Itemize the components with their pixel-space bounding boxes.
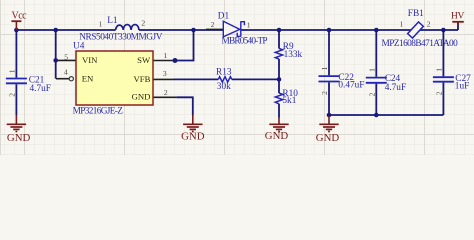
- svg-text:1: 1: [99, 19, 103, 28]
- svg-text:EN: EN: [82, 74, 94, 84]
- svg-text:1: 1: [247, 20, 251, 29]
- svg-text:1uF: 1uF: [455, 82, 469, 92]
- svg-text:1: 1: [434, 68, 443, 72]
- svg-text:1: 1: [320, 66, 329, 70]
- svg-text:2: 2: [320, 91, 329, 95]
- svg-text:GND: GND: [181, 131, 205, 143]
- svg-text:HV: HV: [451, 11, 464, 21]
- svg-text:D1: D1: [218, 11, 230, 21]
- svg-text:1: 1: [164, 51, 168, 60]
- svg-text:FB1: FB1: [408, 9, 424, 19]
- svg-text:U4: U4: [73, 41, 85, 51]
- svg-text:VFB: VFB: [133, 74, 150, 84]
- svg-text:GND: GND: [7, 132, 31, 144]
- svg-text:MPZ1608B471ATA00: MPZ1608B471ATA00: [382, 39, 459, 49]
- svg-text:2: 2: [427, 19, 431, 28]
- svg-text:2: 2: [367, 92, 376, 96]
- svg-text:GND: GND: [132, 92, 151, 102]
- svg-text:SW: SW: [137, 55, 151, 65]
- svg-text:MBR0540-TP: MBR0540-TP: [222, 37, 268, 47]
- svg-text:GND: GND: [316, 132, 340, 144]
- svg-text:5k1: 5k1: [282, 96, 296, 106]
- svg-text:Vcc: Vcc: [12, 10, 28, 21]
- svg-text:1: 1: [367, 68, 376, 72]
- svg-text:30k: 30k: [217, 82, 231, 92]
- svg-text:2: 2: [164, 88, 168, 97]
- svg-text:4.7uF: 4.7uF: [385, 83, 406, 93]
- svg-text:2: 2: [211, 20, 215, 29]
- svg-text:VIN: VIN: [82, 55, 98, 65]
- svg-text:133k: 133k: [284, 50, 303, 60]
- svg-text:4: 4: [64, 68, 68, 77]
- svg-text:GND: GND: [265, 130, 289, 142]
- svg-text:1: 1: [400, 19, 404, 28]
- svg-text:2: 2: [434, 91, 443, 95]
- svg-text:L1: L1: [107, 16, 118, 26]
- svg-text:2: 2: [8, 93, 17, 97]
- svg-text:MP3216GJE-Z: MP3216GJE-Z: [73, 106, 124, 116]
- svg-text:1: 1: [8, 69, 17, 73]
- svg-text:5: 5: [64, 53, 68, 62]
- svg-text:NRS5040T330MMGJV: NRS5040T330MMGJV: [79, 32, 162, 42]
- svg-text:2: 2: [141, 19, 145, 28]
- svg-text:3: 3: [163, 69, 167, 78]
- svg-text:R13: R13: [216, 67, 232, 77]
- svg-text:0.47uF: 0.47uF: [338, 81, 364, 91]
- svg-text:4.7uF: 4.7uF: [30, 84, 51, 94]
